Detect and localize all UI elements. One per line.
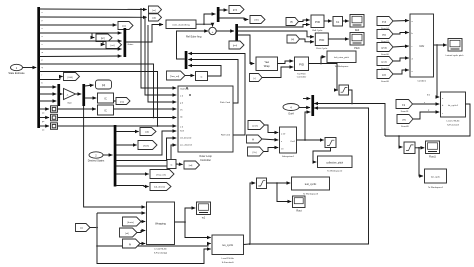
scope Pitch — [350, 33, 364, 51]
wire pitch cmd up to M5 in2 — [188, 60, 238, 104]
svg-text:[tht]: [tht] — [255, 19, 259, 22]
wire SF5 feedback up to sat1 — [250, 183, 255, 244]
svg-text:[NT]: [NT] — [101, 38, 106, 40]
svg-text:Rout: Rout — [296, 210, 302, 213]
wire State Estimate to demux — [23, 67, 36, 69]
wire display1 to IC2 — [58, 108, 96, 110]
goto tag zz — [118, 22, 133, 30]
wire pitch PID to pitch scope — [328, 38, 348, 40]
svg-text:[xd]: [xd] — [152, 18, 156, 20]
from tag zref — [248, 121, 265, 130]
block Outer Loop Controller — [178, 86, 233, 162]
svg-text:From19: From19 — [401, 110, 409, 113]
wire z with goto zz — [40, 25, 148, 30]
from tag k — [123, 239, 141, 248]
svg-text:To Workspace: To Workspace — [335, 65, 350, 68]
wire phi with goto NT1 — [40, 33, 122, 38]
svg-text:Pitch Cyclic: Pitch Cyclic — [316, 47, 328, 50]
svg-text:Level 2 M-file: Level 2 M-file — [446, 121, 460, 123]
goto tag zd — [140, 128, 156, 136]
PID tail pitch controller — [295, 57, 309, 79]
display x — [51, 106, 58, 113]
svg-text:Yaw: Yaw — [264, 61, 269, 64]
wire D4 to goto Xref — [116, 144, 137, 146]
saturation sat3 — [325, 138, 336, 148]
goto tag rst — [103, 41, 122, 49]
goto tag phi — [229, 6, 244, 14]
wire D4 to OLC vel — [116, 138, 176, 161]
wire D3 roll err — [238, 25, 310, 28]
svg-text:[wl]: [wl] — [125, 233, 129, 235]
wire zref to sub1 — [265, 125, 279, 133]
svg-text:[vd_desire]: [vd_desire] — [154, 186, 165, 189]
wire pd to UAV — [393, 70, 409, 74]
wire D3 to goto psi — [236, 41, 238, 42]
gain K1 — [333, 17, 343, 27]
svg-text:IC: IC — [104, 110, 107, 113]
svg-text:[Xref]: [Xref] — [143, 145, 149, 148]
wire sat4 to M6 in1 — [349, 90, 353, 104]
wire tag x to vertical — [90, 227, 96, 229]
wire M4 bottom down to wrapping — [84, 106, 146, 207]
wire branch down to tail_cyclic — [419, 148, 423, 176]
wire euler out to demux D2 and sum — [196, 14, 215, 24]
wire M4 to tag st — [85, 85, 94, 86]
svg-text:Wrapping: Wrapping — [155, 222, 166, 225]
mux M3 — [57, 84, 60, 106]
wire tail PID out to heli_rotor_pitch and sat4 — [309, 57, 326, 64]
svg-text:Out4: Out4 — [288, 113, 294, 116]
mux M6 — [311, 95, 314, 116]
wire Vz to sub1 — [264, 148, 279, 152]
svg-text:[pd]: [pd] — [382, 75, 386, 77]
wire wl to wrapping — [137, 231, 145, 233]
wire wrapping out to SF5 — [185, 222, 211, 238]
oval Desired States — [88, 152, 105, 163]
wire psid to UAV — [393, 58, 409, 61]
svg-text:tail_cyclic: tail_cyclic — [431, 176, 441, 179]
svg-text:Out1: Out1 — [290, 140, 296, 143]
wire lat_cyclic1 out loop — [385, 104, 470, 136]
wire k to wrapping — [140, 243, 145, 245]
mux M4 — [82, 84, 85, 106]
wire 9d to UAV — [393, 33, 409, 35]
from tag phid — [377, 43, 393, 57]
from tag Yaw_ref — [167, 71, 186, 80]
svg-text:Rout1: Rout1 — [429, 156, 436, 159]
svg-text:[xx]: [xx] — [152, 10, 156, 12]
svg-text:From18: From18 — [381, 80, 389, 83]
svg-text:[rst]: [rst] — [120, 101, 124, 104]
svg-text:Ref Euler Ang: Ref Euler Ang — [186, 36, 202, 39]
goto tag NT1 — [92, 33, 112, 42]
block lat_cyclic1 — [441, 92, 466, 127]
wire rq to lat_cyclic1 — [413, 103, 440, 105]
svg-text:collective_pitch: collective_pitch — [326, 162, 344, 165]
wire D3 yaw err to yaw wrap — [238, 35, 255, 64]
wire r to tail PID — [262, 67, 293, 78]
display z — [51, 123, 58, 130]
wire Out4 to M6 — [299, 107, 310, 109]
svg-text:Roll: Roll — [355, 29, 360, 32]
block collective_pitch ws2 — [318, 156, 353, 173]
wire r bend to Vz line — [40, 72, 159, 127]
from tag thd — [377, 17, 393, 31]
svg-text:Lateral cyclic pitch: Lateral cyclic pitch — [446, 54, 465, 57]
svg-text:[Vz]: [Vz] — [253, 152, 257, 154]
svg-text:Level2 M-file: Level2 M-file — [221, 258, 234, 260]
wire B to roll PID — [299, 20, 310, 22]
wire M2 out to euler — [126, 25, 163, 43]
from tag Vz — [248, 147, 264, 156]
block G2 small — [167, 160, 176, 169]
svg-text:PID: PID — [299, 63, 305, 67]
wire G2 to tag vd — [176, 163, 183, 166]
wires demux to mux M3 — [40, 87, 57, 101]
svg-text:Gain: Gain — [67, 103, 72, 105]
block Yaw Wrap — [256, 57, 278, 71]
PID roll cyclic — [311, 15, 324, 32]
svg-text:[B]: [B] — [290, 22, 293, 24]
demux D2 — [217, 7, 220, 22]
svg-text:[Yaw_ref]: [Yaw_ref] — [156, 174, 165, 177]
wire D2 to goto theta — [219, 18, 248, 20]
from tag rq — [396, 100, 413, 114]
svg-text:[k]: [k] — [129, 244, 132, 246]
from tag rst2 — [113, 98, 130, 105]
svg-text:From20: From20 — [401, 125, 409, 128]
node State Estimate inport — [8, 64, 25, 75]
wire psi — [40, 49, 122, 54]
mux M5 ref states — [185, 51, 188, 69]
wire roll PID to K1 — [324, 20, 332, 22]
svg-text:test_cyclic: test_cyclic — [305, 183, 317, 186]
block UAV combine — [410, 14, 434, 83]
svg-text:S-Function(p): S-Function(p) — [154, 252, 168, 255]
svg-text:PID: PID — [315, 20, 321, 24]
svg-text:S-Function5: S-Function5 — [222, 261, 235, 264]
wire sum to demux D3 — [216, 30, 234, 32]
svg-text:[phid]: [phid] — [381, 48, 387, 50]
wire SF5 out to loop — [244, 243, 250, 246]
svg-text:To Workspace1: To Workspace1 — [428, 186, 444, 189]
wire to SF5 in2 — [97, 244, 211, 247]
wire Yaw_ref to G — [185, 75, 194, 77]
scope Rout1 — [426, 141, 440, 159]
svg-text:From16: From16 — [381, 53, 389, 56]
block IC2 — [98, 105, 114, 115]
svg-text:Roll Cmd: Roll Cmd — [221, 135, 231, 137]
display y — [51, 114, 58, 121]
wire sat1 to ws3 — [267, 182, 291, 184]
sum junction — [209, 27, 216, 34]
wire D4 to goto zd — [116, 131, 139, 133]
wire D4 to goto vd_desire — [116, 186, 149, 187]
svg-text:[theta]: [theta] — [127, 221, 133, 224]
wire lat1 feedback into M6 — [314, 104, 385, 137]
scope Roll — [350, 15, 364, 33]
svg-text:[W]: [W] — [402, 120, 406, 122]
wire D4 to OLC Xref — [116, 131, 176, 155]
wire W to lat_cyclic1 — [413, 112, 439, 119]
svg-text:Wrap: Wrap — [264, 65, 271, 68]
svg-text:Xref: Xref — [180, 130, 184, 133]
svg-text:heli_rotor_pitch: heli_rotor_pitch — [334, 56, 350, 59]
goto tag psi — [229, 41, 244, 49]
svg-text:[z]: [z] — [252, 139, 255, 141]
wire roll cmd up to M5 in1 — [188, 54, 245, 136]
svg-text:Tail Pitch: Tail Pitch — [297, 73, 307, 76]
svg-text:[st]: [st] — [102, 84, 106, 87]
svg-text:[phi]: [phi] — [233, 10, 238, 12]
svg-text:z ref: z ref — [281, 133, 286, 136]
block SF5 test_cyclic — [212, 235, 244, 264]
goto tag Yaw_ref2 — [150, 170, 174, 179]
demux D4 — [114, 125, 117, 187]
from tag psid — [377, 57, 393, 71]
block heli_rotor_pitch — [327, 51, 356, 68]
svg-text:euler_dsomething: euler_dsomething — [172, 24, 190, 27]
svg-text:acc_desired: acc_desired — [180, 144, 193, 147]
goto tag xd — [149, 14, 162, 21]
wire K1 to roll scope — [343, 20, 349, 22]
svg-text:[H]: [H] — [291, 39, 294, 41]
wire phid to UAV — [393, 46, 409, 47]
from tag wl — [120, 228, 138, 237]
wire H to pitch PID — [300, 39, 314, 42]
wire x — [40, 8, 147, 14]
wire desired states to D4 — [103, 154, 112, 156]
gain triangle — [64, 89, 76, 105]
goto tag st rounded — [96, 80, 112, 89]
svg-text:[OrB]: [OrB] — [67, 76, 72, 79]
svg-text:[Yaw_ref]: [Yaw_ref] — [170, 75, 179, 78]
wire q bend to Vy line — [40, 64, 155, 118]
svg-text:vel_desired: vel_desired — [180, 137, 192, 140]
wires demux to displays — [40, 109, 49, 132]
svg-text:UAV: UAV — [419, 45, 424, 48]
svg-text:[psid]: [psid] — [381, 62, 387, 64]
OLC input arrows — [58, 9, 191, 126]
wire G up to M5 in3 — [188, 66, 221, 77]
svg-text:tes_cyclic: tes_cyclic — [222, 244, 234, 247]
svg-text:Level2 M-file: Level2 M-file — [154, 249, 167, 251]
oval Out4 — [283, 104, 299, 116]
wire D4 to OLC acc — [116, 145, 176, 166]
from tag B — [286, 18, 299, 26]
goto tag vd_desire — [150, 183, 171, 191]
svg-text:Subsystem1: Subsystem1 — [282, 155, 295, 158]
wire y — [40, 16, 147, 22]
svg-text:To Workspace2: To Workspace2 — [327, 170, 343, 173]
svg-text:Roll Cyclic: Roll Cyclic — [312, 30, 323, 32]
svg-text:S-Function3: S-Function3 — [447, 124, 460, 127]
saturation sat1 — [257, 178, 267, 189]
scope Lateral cyclic pitch — [446, 39, 465, 58]
goto tag OrB — [64, 73, 80, 81]
PID pitch cyclic — [315, 33, 328, 50]
svg-text:[psi]: [psi] — [233, 45, 237, 47]
svg-text:+: + — [212, 30, 214, 34]
wire sat2 to scope Rout1 — [415, 147, 424, 149]
svg-text:Controller: Controller — [200, 159, 211, 162]
demux D1 state estimate — [37, 7, 40, 128]
from tag theta2 — [123, 217, 142, 226]
block euler_dsomething — [166, 20, 196, 29]
wire M4 to IC1 — [85, 97, 96, 99]
goto tag Xref — [138, 141, 157, 150]
mux M2 gates — [124, 28, 127, 57]
svg-text:Desired States: Desired States — [88, 160, 105, 163]
svg-text:[x]: [x] — [80, 228, 83, 230]
scope w — [197, 202, 211, 220]
wire gain to M4 — [76, 93, 82, 95]
goto tag xx — [149, 6, 162, 13]
svg-text:Pitch: Pitch — [354, 47, 360, 50]
svg-text:Combine: Combine — [417, 81, 427, 83]
block Wrapping — [147, 202, 175, 255]
block test_cyclic ws3 — [292, 177, 330, 196]
wire M6 in4 from sub1 junction — [305, 112, 310, 140]
svg-text:Vz: Vz — [281, 149, 284, 151]
wire D3 pitch err — [238, 31, 314, 37]
wire wrapping out — [175, 208, 196, 222]
svg-text:Pitch Cmd: Pitch Cmd — [220, 101, 231, 104]
wire vertical x97 — [97, 213, 211, 264]
from tag 9d — [377, 30, 393, 44]
block IC1 — [98, 93, 114, 103]
svg-text:[rq]: [rq] — [402, 104, 406, 107]
from tag z — [247, 135, 263, 143]
svg-text:State Estimate: State Estimate — [8, 72, 25, 75]
wire z to sub1 — [262, 139, 278, 140]
wire b with goto OrB — [40, 77, 63, 85]
saturation sat4 — [339, 85, 349, 95]
svg-text:z: z — [281, 141, 282, 143]
wire to wrapping in2 — [97, 212, 145, 214]
svg-text:[zz]: [zz] — [122, 26, 126, 28]
svg-text:PID: PID — [319, 38, 325, 42]
wire sub1 out to sat3 — [297, 139, 324, 141]
svg-text:To Workspace3: To Workspace3 — [303, 193, 319, 196]
wire branch to scope4 — [277, 183, 291, 202]
saturation sat2 — [404, 142, 415, 154]
from tag x bottom — [76, 224, 91, 232]
svg-text:[thd]: [thd] — [382, 21, 387, 24]
wire UAV branch down to lat_cyclic1 — [437, 45, 439, 97]
from tag pd — [377, 70, 393, 84]
svg-text:lat_cyclic1: lat_cyclic1 — [448, 104, 459, 107]
wire D2 to goto phi — [219, 9, 227, 11]
wire SF5 feedback loop into M6 — [251, 108, 369, 244]
svg-text:Gateway: Gateway — [180, 88, 190, 91]
wire D4 to goto Yaw_ref — [116, 173, 149, 175]
block tail_cyclic workspace — [425, 169, 447, 189]
wire theta2 to wrapping — [141, 221, 145, 223]
from tag H — [287, 35, 300, 43]
wire theta with goto rst — [40, 41, 122, 46]
wire sat3 chain to collective — [313, 148, 331, 163]
wire thd to UAV — [393, 20, 409, 23]
goto tag theta — [250, 16, 265, 24]
svg-text:z: z — [42, 28, 43, 30]
wire p into mux M2 — [40, 56, 122, 62]
svg-text:Controller: Controller — [297, 76, 307, 79]
scope Rout — [293, 196, 306, 213]
block Subsystem1 — [280, 127, 297, 158]
svg-text:IC: IC — [104, 98, 107, 101]
svg-text:Gates: Gates — [128, 43, 135, 46]
svg-text:Outer Loop: Outer Loop — [199, 155, 212, 158]
wire M5 out to sum (Ref Euler Ang) — [177, 31, 209, 59]
demux D3 — [235, 24, 238, 41]
from tag r — [250, 74, 263, 82]
svg-text:[vd]: [vd] — [189, 165, 193, 167]
wire Yaw Wrap to tail PID — [278, 61, 294, 64]
wire UAV to lateral scope — [434, 44, 447, 46]
wire M3 to gain — [60, 93, 63, 95]
svg-text:[zref]: [zref] — [253, 125, 258, 128]
goto tag vd — [184, 161, 200, 169]
from tag W — [397, 115, 413, 129]
block G wrap — [196, 72, 208, 81]
svg-text:[9d]: [9d] — [382, 35, 386, 37]
svg-text:[rst]: [rst] — [111, 44, 115, 47]
svg-text:[zd]: [zd] — [145, 132, 149, 134]
